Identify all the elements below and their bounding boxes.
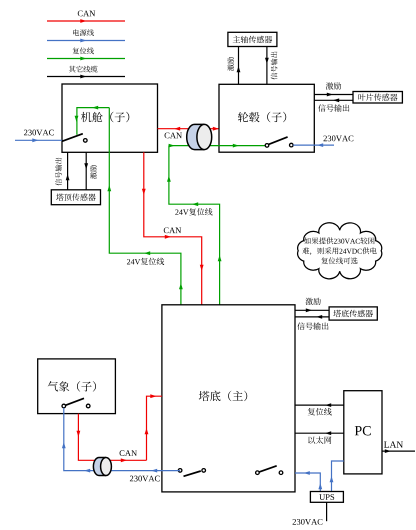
weather switch pivot contact [62, 404, 66, 408]
legend reset wire (green) [47, 58, 125, 60]
wire reset tower-to-nacelle (green) [109, 108, 181, 305]
nacelle box 机舱（子） [62, 84, 158, 152]
label 24V复位线 (upper) [175, 208, 212, 215]
label 激励 rotated (hub left) [227, 57, 234, 71]
cloud text line1 [304, 237, 374, 244]
legend label other cables 其它线缆 [69, 66, 98, 73]
hub reset wire green into switch [169, 145, 265, 147]
legend CAN wire (red) [47, 20, 125, 22]
tower base right switch contact 1 [256, 471, 260, 475]
label 激励 (blade sensor) [326, 82, 341, 89]
label CAN (middle) [164, 227, 181, 233]
tower base sensor box 塔底传感器 [329, 307, 377, 320]
legend label CAN [78, 11, 95, 17]
legend label reset line 复位线 [73, 47, 94, 54]
wire signal from tower base sensor [295, 316, 329, 318]
legend power wire (blue) [47, 40, 125, 42]
legend label power line 电源线 [73, 29, 94, 36]
tower base right switch contact 2 [279, 471, 283, 475]
nacelle switch blade [62, 134, 83, 142]
wire CAN weather into tower base (red) [147, 396, 162, 460]
slip ring cylinder (bottom) [93, 458, 106, 476]
label 信号输出 rotated (hub right) [271, 52, 278, 80]
label 以太网 [308, 436, 331, 444]
slip ring cylinder (top) [187, 124, 205, 149]
wire hub excitation up (black) [238, 47, 240, 85]
wire 230VAC to UPS (black) [326, 502, 328, 521]
wire reset tower-to-hub vertical (green) [169, 146, 220, 305]
tower base left switch contact 1 [178, 469, 182, 473]
hub switch blade [269, 137, 288, 145]
label 230VAC left [24, 130, 54, 136]
nacelle switch contact [84, 139, 88, 143]
UPS label [319, 494, 334, 500]
label 230VAC (bottom) [130, 476, 160, 482]
label 激励 (tower base sensor) [305, 298, 320, 305]
hub box 轮毂（子） [219, 84, 314, 152]
cloud callout [298, 223, 382, 279]
wire ethernet to PC (black) [295, 432, 344, 434]
label 复位线 [308, 408, 332, 416]
label 激励 rotated [90, 165, 97, 179]
tower base right switch blade [259, 466, 276, 472]
label 24V复位线 (lower) [127, 258, 164, 265]
hub switch contact 1 [265, 144, 269, 148]
wire nacelle signal output (black, up arrow) [67, 152, 69, 190]
wire nacelle excitation (black, down arrow) [85, 152, 87, 190]
tower base left switch blade [184, 471, 201, 476]
cloud text line3 [321, 257, 357, 264]
weather switch blade [65, 398, 84, 405]
wire CAN nacelle to hub (red) [158, 128, 220, 130]
wire signal from blade sensor (black) [314, 99, 353, 101]
nacelle reset loop wire (green) [77, 108, 109, 135]
label 信号输出 (blade sensor) [318, 104, 349, 111]
label 230VAC (bottom right) [293, 519, 323, 525]
wire excitation to tower base sensor [295, 309, 329, 311]
wire tower base to UPS (blue) [295, 473, 320, 492]
PC box [344, 391, 382, 474]
wire UPS to PC (blue) [332, 461, 344, 492]
weather box 气象（子） [38, 359, 116, 414]
main shaft sensor box 主轴传感器 [228, 32, 277, 46]
wire LAN (black) [382, 450, 415, 452]
UPS box [310, 492, 343, 503]
label LAN [384, 441, 403, 447]
wire reset line to PC (black) [295, 404, 344, 406]
weather label 气象（子） [48, 381, 96, 391]
tower top sensor box 塔顶传感器 [51, 190, 100, 205]
hub label 轮毂（子） [238, 112, 286, 122]
wire 230VAC hub (blue) [293, 144, 334, 146]
wire CAN nacelle to tower base (red) [144, 152, 202, 304]
tower base box 塔底（主） [162, 305, 295, 492]
label 信号输出 rotated [55, 158, 62, 186]
tower base left switch contact 2 [202, 469, 206, 473]
cloud text line2 [302, 247, 376, 255]
nacelle label 机舱（子） [81, 112, 129, 122]
blade sensor box 叶片传感器 [353, 92, 402, 104]
tower base label 塔底（主） [199, 391, 247, 402]
legend other wire (black) [47, 76, 125, 78]
wire 230VAC into nacelle (blue) [15, 139, 62, 141]
wire 230VAC weather (blue) [64, 408, 180, 471]
label 信号输出 (tower base sensor) [297, 322, 328, 329]
weather switch contact 2 [86, 404, 90, 408]
wire hub signal down (black) [266, 47, 268, 85]
wire CAN weather (red) [78, 414, 146, 461]
label CAN (bottom) [120, 450, 137, 456]
hub switch contact 2 [290, 143, 294, 147]
label 230VAC hub [323, 136, 353, 142]
PC label [355, 426, 371, 435]
wire excitation to blade sensor (black) [314, 94, 353, 96]
label CAN [165, 133, 182, 139]
